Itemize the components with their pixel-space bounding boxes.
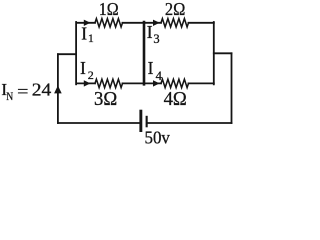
svg-text:24: 24 xyxy=(32,79,52,99)
svg-text:3Ω: 3Ω xyxy=(94,89,117,110)
svg-text:4Ω: 4Ω xyxy=(164,89,187,110)
svg-text:50v: 50v xyxy=(145,128,170,146)
svg-text:4: 4 xyxy=(156,69,163,83)
svg-text:3: 3 xyxy=(153,32,159,46)
svg-text:N: N xyxy=(6,91,13,103)
svg-text:2Ω: 2Ω xyxy=(165,0,186,19)
svg-text:I: I xyxy=(81,23,87,43)
svg-text:1Ω: 1Ω xyxy=(99,0,119,19)
svg-text:=: = xyxy=(17,82,28,101)
svg-text:2: 2 xyxy=(88,68,94,82)
svg-text:I: I xyxy=(147,22,153,42)
svg-text:I: I xyxy=(148,58,154,78)
svg-text:1: 1 xyxy=(88,33,94,45)
svg-text:I: I xyxy=(80,58,86,78)
